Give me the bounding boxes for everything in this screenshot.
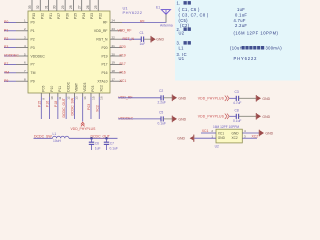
pin 1 GND wire bbox=[194, 137, 216, 139]
svg-text:33: 33 bbox=[28, 5, 32, 9]
svg-text:300mA): 300mA) bbox=[266, 46, 283, 51]
wire bbox=[118, 97, 161, 99]
wire bbox=[34, 137, 53, 139]
svg-text:1uF: 1uF bbox=[237, 7, 245, 12]
pin 32 (P32) wire + label bbox=[36, 0, 44, 19]
svg-text:24: 24 bbox=[112, 19, 116, 23]
capacitor C7 bbox=[106, 138, 108, 142]
svg-text:P16: P16 bbox=[101, 71, 107, 75]
pin 24 (RF) wire + label bbox=[103, 19, 122, 25]
wire bbox=[144, 38, 151, 40]
pin 2 XC1 wire bbox=[201, 132, 216, 134]
svg-text:P31: P31 bbox=[49, 13, 53, 19]
svg-text:GND: GND bbox=[218, 136, 226, 140]
ground arrow bbox=[255, 95, 258, 102]
svg-text:P7: P7 bbox=[4, 62, 8, 66]
svg-text:P03: P03 bbox=[87, 104, 91, 110]
svg-text:VDD_PHYPLUS: VDD_PHYPLUS bbox=[71, 127, 97, 131]
svg-text:PHY6222: PHY6222 bbox=[123, 10, 143, 15]
svg-text:16: 16 bbox=[100, 96, 104, 100]
ground arrow bbox=[255, 113, 258, 120]
svg-text:XC1: XC1 bbox=[120, 79, 127, 83]
pin 9 (P05) wire + label bbox=[37, 86, 45, 119]
svg-text:1uF: 1uF bbox=[95, 147, 101, 150]
svg-text:GND: GND bbox=[265, 132, 273, 136]
pin 4 (P3) wire + label bbox=[4, 44, 35, 50]
svg-text:TM: TM bbox=[31, 71, 36, 75]
svg-text:20: 20 bbox=[112, 52, 116, 56]
svg-text:P1: P1 bbox=[4, 28, 8, 32]
pin 30 (P27) wire + label bbox=[53, 0, 61, 19]
pin 29 (P26) wire + label bbox=[61, 0, 69, 19]
svg-text:( C1, C6 ): ( C1, C6 ) bbox=[179, 7, 201, 12]
VDDDEC decoupling row bbox=[118, 111, 187, 126]
pin 19 (P17) wire + label bbox=[101, 61, 125, 67]
svg-text:P1: P1 bbox=[31, 29, 35, 33]
svg-text:XC2: XC2 bbox=[252, 135, 259, 139]
wire bbox=[229, 115, 236, 117]
svg-text:RF: RF bbox=[140, 19, 145, 23]
svg-text:GND: GND bbox=[178, 117, 186, 121]
svg-text:2.2uF: 2.2uF bbox=[158, 100, 166, 104]
svg-text:P9: P9 bbox=[4, 79, 8, 83]
svg-text:DCDC_OUT: DCDC_OUT bbox=[62, 97, 66, 117]
svg-text:VDDDEC: VDDDEC bbox=[4, 54, 19, 58]
svg-text:P20: P20 bbox=[120, 45, 126, 49]
wire bbox=[118, 118, 161, 120]
svg-text:P0: P0 bbox=[31, 21, 35, 25]
svg-text:P05: P05 bbox=[42, 86, 46, 92]
svg-text:(16M 12PF 10PPM): (16M 12PF 10PPM) bbox=[234, 31, 279, 36]
svg-text:DCDC_OUT: DCDC_OUT bbox=[91, 135, 111, 139]
antenna E1 bbox=[156, 6, 173, 28]
svg-text:30: 30 bbox=[53, 5, 57, 9]
svg-text:DCDC_SW: DCDC_SW bbox=[34, 134, 52, 138]
pin 2 (P1) wire + label bbox=[4, 27, 35, 33]
RST_N circuit: wire bbox=[122, 38, 141, 40]
pin 28 (P25) wire + label bbox=[69, 0, 77, 19]
svg-text:XC2: XC2 bbox=[95, 105, 99, 112]
pin 27 (P24) wire + label bbox=[77, 0, 85, 19]
svg-text:RF: RF bbox=[103, 21, 108, 25]
svg-text:XC1: XC1 bbox=[218, 131, 224, 135]
svg-text:P22: P22 bbox=[98, 13, 102, 19]
svg-text:(10uH: (10uH bbox=[230, 46, 243, 51]
capacitor C8 bbox=[235, 114, 237, 119]
svg-text:GND: GND bbox=[262, 115, 270, 119]
svg-text:1uF: 1uF bbox=[140, 42, 146, 46]
svg-text:TM: TM bbox=[4, 70, 9, 74]
svg-text:C6: C6 bbox=[95, 142, 99, 146]
svg-text:XTAL0: XTAL0 bbox=[97, 80, 107, 84]
svg-text:U1: U1 bbox=[179, 56, 185, 61]
svg-text:P15: P15 bbox=[37, 101, 41, 107]
svg-text:17: 17 bbox=[112, 78, 116, 82]
svg-text:0.1uF: 0.1uF bbox=[110, 147, 118, 150]
VDD_PHYPLUS decoupling row 2 bbox=[198, 108, 271, 123]
svg-text:P20: P20 bbox=[101, 46, 107, 50]
svg-text:22: 22 bbox=[112, 36, 116, 40]
svg-text:VDD3: VDD3 bbox=[83, 83, 87, 92]
svg-text:P17: P17 bbox=[101, 63, 107, 67]
svg-text:P3: P3 bbox=[4, 45, 8, 49]
svg-text:VDDDEC: VDDDEC bbox=[31, 54, 46, 58]
pin 14 (VDD3) wire + label bbox=[83, 83, 87, 122]
svg-text:P0: P0 bbox=[4, 20, 8, 24]
svg-text:(C2): (C2) bbox=[180, 23, 190, 28]
svg-text:P03: P03 bbox=[91, 86, 95, 92]
svg-text:U2: U2 bbox=[215, 144, 219, 148]
svg-text:10uH: 10uH bbox=[53, 139, 62, 143]
pin 13 (VBAT) wire + label bbox=[70, 83, 78, 119]
svg-text:2.2uF: 2.2uF bbox=[235, 23, 247, 28]
wire bbox=[164, 97, 173, 99]
svg-text:28: 28 bbox=[69, 5, 73, 9]
svg-text:P18: P18 bbox=[54, 101, 58, 107]
svg-text:RST_N: RST_N bbox=[96, 38, 108, 42]
crystal U2 bbox=[177, 125, 273, 148]
svg-text:P11: P11 bbox=[58, 86, 62, 92]
svg-text:C5: C5 bbox=[159, 111, 163, 115]
ground arrow bbox=[171, 95, 174, 102]
pin 11 (P11) wire + label bbox=[54, 86, 62, 119]
svg-text:XC2: XC2 bbox=[232, 136, 238, 140]
wire DCDC_OUT bbox=[69, 137, 118, 139]
pin 25 (P22) wire + label bbox=[94, 0, 102, 19]
notes text bbox=[177, 1, 283, 62]
svg-text:P33: P33 bbox=[32, 13, 36, 19]
wire bbox=[239, 115, 256, 117]
svg-text:P2: P2 bbox=[4, 37, 8, 41]
svg-text:P32: P32 bbox=[40, 13, 44, 19]
svg-text:VDD_PHYPLUS: VDD_PHYPLUS bbox=[198, 96, 225, 100]
ground arrow right bbox=[258, 130, 261, 137]
svg-text:21: 21 bbox=[112, 44, 116, 48]
capacitor C3 bbox=[235, 96, 237, 101]
svg-text:P26: P26 bbox=[65, 13, 69, 19]
svg-text:E1: E1 bbox=[156, 6, 160, 10]
svg-text:U2: U2 bbox=[179, 31, 185, 36]
svg-text:0.1uF: 0.1uF bbox=[235, 13, 247, 18]
pin 23 (VDD_RF) wire + label bbox=[94, 27, 132, 33]
svg-text:0.1uF: 0.1uF bbox=[158, 122, 166, 126]
svg-text:Antenna: Antenna bbox=[160, 24, 173, 28]
pin 1 (P0) wire + label bbox=[4, 19, 35, 25]
svg-text:XC1: XC1 bbox=[202, 129, 209, 133]
notes panel bbox=[175, 0, 300, 81]
svg-text:RST_N: RST_N bbox=[123, 37, 135, 41]
svg-text:P9: P9 bbox=[31, 80, 35, 84]
svg-text:P16: P16 bbox=[120, 70, 126, 74]
ground arrow bbox=[171, 116, 174, 123]
svg-text:4.7uF: 4.7uF bbox=[233, 101, 241, 105]
svg-text:1.: 1. bbox=[177, 1, 181, 6]
svg-text:13: 13 bbox=[75, 96, 79, 100]
svg-text:25: 25 bbox=[94, 5, 98, 9]
svg-text:( C3, C7, C8 ): ( C3, C7, C8 ) bbox=[179, 13, 209, 18]
capacitor C2 bbox=[160, 95, 162, 100]
ground arrow left bbox=[193, 135, 194, 142]
svg-text:15: 15 bbox=[91, 96, 95, 100]
svg-text:P19: P19 bbox=[101, 54, 107, 58]
svg-text:GND: GND bbox=[262, 97, 270, 101]
svg-text:P7: P7 bbox=[31, 63, 35, 67]
svg-text:P23: P23 bbox=[90, 13, 94, 19]
pin 3 XC2 wire bbox=[242, 137, 257, 139]
wire bbox=[164, 118, 173, 120]
svg-text:18: 18 bbox=[112, 69, 116, 73]
pin 6 (P7) wire + label bbox=[4, 61, 35, 67]
capacitor C5 bbox=[160, 116, 162, 121]
pin 12 (DCDC) wire + label bbox=[62, 81, 70, 119]
pin 22 (RST_N) wire + label bbox=[96, 36, 122, 42]
pin 33 (P33) wire + label bbox=[28, 0, 36, 19]
pin 10 (P10) wire + label bbox=[46, 86, 54, 119]
junction bbox=[105, 137, 107, 139]
svg-text:XC2: XC2 bbox=[99, 85, 103, 92]
svg-text:P10: P10 bbox=[50, 86, 54, 92]
svg-text:VDD_RF: VDD_RF bbox=[118, 28, 132, 32]
pin 21 (P20) wire + label bbox=[101, 44, 125, 50]
VDD_RF decoupling row bbox=[118, 89, 187, 104]
svg-text:19: 19 bbox=[112, 61, 116, 65]
svg-text:C3: C3 bbox=[235, 90, 239, 94]
capacitor C1 bbox=[140, 31, 146, 46]
pin 3 (P2) wire + label bbox=[4, 36, 35, 42]
power port VDD_PHYPLUS (bottom of chip) bbox=[71, 122, 97, 131]
svg-text:14: 14 bbox=[83, 96, 87, 100]
svg-text:P27: P27 bbox=[57, 13, 61, 19]
svg-text:GND: GND bbox=[232, 131, 240, 135]
svg-text:C2: C2 bbox=[159, 89, 163, 93]
svg-text:P24: P24 bbox=[82, 13, 86, 19]
svg-text:29: 29 bbox=[61, 5, 65, 9]
svg-text:P16: P16 bbox=[46, 101, 50, 107]
pin 17 (XTAL0) wire + label bbox=[97, 78, 126, 84]
svg-text:32: 32 bbox=[36, 5, 40, 9]
IC U1 PHY6222 bbox=[28, 11, 110, 93]
svg-text:27: 27 bbox=[77, 5, 81, 9]
svg-text:23: 23 bbox=[112, 27, 116, 31]
svg-text:C1: C1 bbox=[140, 31, 144, 35]
pin 15 (P03) wire + label bbox=[87, 86, 95, 119]
wire bbox=[229, 97, 236, 99]
ground arrow after C1 bbox=[151, 36, 165, 43]
svg-text:31: 31 bbox=[44, 5, 48, 9]
pin 7 (TM) wire + label bbox=[4, 69, 36, 75]
svg-text:P3: P3 bbox=[31, 46, 35, 50]
svg-text:P25: P25 bbox=[74, 13, 78, 19]
svg-text:0.1uF: 0.1uF bbox=[233, 119, 241, 123]
svg-text:VBAT: VBAT bbox=[75, 83, 79, 92]
junction bbox=[90, 137, 92, 139]
pin 20 (P19) wire + label bbox=[101, 52, 125, 58]
svg-text:L1: L1 bbox=[53, 132, 57, 136]
pin 31 (P31) wire + label bbox=[44, 0, 52, 19]
svg-text:P19: P19 bbox=[120, 54, 126, 58]
wire RF net bbox=[122, 21, 166, 23]
svg-text:DCDC_SW: DCDC_SW bbox=[70, 97, 74, 115]
pin 16 (XC2) wire + label bbox=[95, 85, 103, 119]
VDD_PHYPLUS decoupling row 1 bbox=[198, 90, 271, 105]
pin 18 (P16) wire + label bbox=[101, 69, 125, 75]
svg-text:C8: C8 bbox=[235, 108, 239, 112]
svg-text:DCDC: DCDC bbox=[66, 81, 70, 91]
svg-text:26: 26 bbox=[86, 5, 90, 9]
svg-text:C7: C7 bbox=[110, 142, 114, 146]
svg-text:10: 10 bbox=[50, 96, 54, 100]
pin 26 (P23) wire + label bbox=[86, 0, 94, 19]
svg-text:GND: GND bbox=[177, 137, 185, 141]
svg-text:PHY6222: PHY6222 bbox=[234, 56, 258, 61]
svg-text:GND: GND bbox=[156, 38, 164, 42]
svg-text:VDD_RF: VDD_RF bbox=[94, 29, 108, 33]
DCDC_SW / L1 / DCDC_OUT bottom circuit bbox=[34, 132, 118, 151]
pin 4 GND wire bbox=[242, 132, 259, 134]
wire bbox=[239, 97, 256, 99]
svg-text:P17: P17 bbox=[120, 62, 126, 66]
pin 8 (P9) wire + label bbox=[4, 78, 35, 84]
svg-text:P2: P2 bbox=[31, 38, 35, 42]
svg-text:VDD_PHYPLUS: VDD_PHYPLUS bbox=[198, 114, 225, 118]
svg-text:16M 12PF 10PPM: 16M 12PF 10PPM bbox=[213, 125, 239, 129]
capacitor C6 bbox=[91, 138, 93, 142]
svg-text:L1: L1 bbox=[179, 46, 185, 51]
pin 5 (VDDDEC) wire + label bbox=[4, 52, 45, 58]
svg-text:GND: GND bbox=[178, 96, 186, 100]
